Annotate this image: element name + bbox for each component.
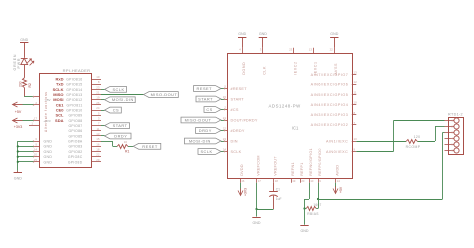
svg-text:29: 29 [96, 158, 100, 162]
wire AIN0 to RTD pin1 [356, 121, 444, 152]
svg-text:19: 19 [96, 96, 100, 100]
svg-text:16: 16 [241, 179, 245, 183]
svg-text:START: START [198, 96, 213, 101]
svg-text:GPIO87: GPIO87 [68, 124, 82, 128]
net label RESET (IC side) [194, 86, 228, 92]
wire AIN1 to RCOMP to RTD pin2 [356, 141, 406, 143]
svg-text:DRDY: DRDY [114, 133, 127, 138]
svg-text:GND: GND [253, 221, 261, 225]
ground GND1 [20, 38, 29, 43]
svg-text:15: 15 [96, 137, 100, 141]
svg-text:1uF: 1uF [276, 197, 282, 201]
svg-text:23: 23 [223, 137, 227, 141]
svg-text:15: 15 [223, 95, 227, 99]
net label SCLK [101, 86, 127, 92]
LED LED1 GREEN PWR [13, 54, 34, 71]
svg-text:22: 22 [330, 48, 334, 52]
svg-text:MISO-DOUT: MISO-DOUT [185, 117, 212, 122]
svg-text:IEXC1: IEXC1 [313, 61, 317, 74]
svg-text:23: 23 [96, 85, 100, 89]
svg-text:22: 22 [96, 153, 100, 157]
svg-text:GND: GND [330, 32, 338, 36]
svg-text:CLK: CLK [263, 66, 267, 75]
svg-text:RBIAS: RBIAS [307, 212, 319, 216]
svg-text:AIN0/IEXC: AIN0/IEXC [326, 150, 348, 154]
svg-text:+3V3: +3V3 [244, 188, 248, 196]
IC U1 right pin names and stubs [311, 71, 357, 154]
ground (RBIAS) [300, 226, 309, 234]
svg-text:13: 13 [309, 48, 313, 52]
supply +3V3 (DVDD) [238, 183, 248, 196]
svg-text:REFN1: REFN1 [291, 162, 295, 176]
net label CS (IC side) [204, 107, 227, 113]
svg-text:16: 16 [96, 142, 100, 146]
wire REFP0 net [317, 133, 445, 209]
svg-text:START: START [231, 97, 245, 101]
svg-text:CS: CS [113, 108, 119, 113]
net label MISO-DOUT (IC side) [181, 117, 227, 123]
net label DRDY (IC side) [196, 128, 228, 134]
net label MOSI-DIN [101, 97, 135, 103]
svg-text:10: 10 [354, 101, 358, 105]
svg-text:11: 11 [354, 91, 357, 95]
svg-text:VREFOUT: VREFOUT [273, 156, 277, 176]
svg-text:GPIO82: GPIO82 [68, 150, 82, 154]
svg-text:14: 14 [34, 148, 38, 152]
svg-text:GPIO89: GPIO89 [68, 114, 82, 118]
ground [238, 32, 247, 48]
svg-text:GND: GND [259, 32, 267, 36]
svg-text:14: 14 [337, 179, 341, 183]
net label SCLK (IC side) [198, 149, 227, 155]
svg-text:22: 22 [223, 127, 227, 131]
svg-text:AIN6/IEXC/GPIO6: AIN6/IEXC/GPIO6 [311, 83, 349, 87]
svg-text:20: 20 [34, 153, 38, 157]
svg-text:AIN4/IEXC/GPIO4: AIN4/IEXC/GPIO4 [311, 103, 349, 107]
svg-text:GND: GND [44, 140, 53, 144]
svg-text:RPI-HEADER: RPI-HEADER [63, 68, 91, 73]
svg-text:17: 17 [34, 116, 38, 120]
svg-text:GPIO815: GPIO815 [66, 83, 82, 87]
svg-text:SCLK: SCLK [112, 87, 124, 92]
svg-text:GPIO812: GPIO812 [66, 98, 82, 102]
svg-text:21: 21 [223, 116, 227, 120]
svg-text:IC1: IC1 [292, 125, 299, 130]
svg-text:#RESET: #RESET [231, 87, 248, 91]
supply +3V3 [13, 118, 34, 129]
svg-text:GND: GND [44, 160, 53, 164]
svg-text:GND: GND [20, 38, 28, 42]
net label START [101, 123, 130, 129]
svg-text:+3V3: +3V3 [43, 119, 50, 123]
wire [418, 127, 445, 142]
svg-text:AVSS: AVSS [334, 63, 338, 75]
wire [24, 43, 26, 58]
svg-text:REFN0/GPIO1: REFN0/GPIO1 [309, 148, 313, 176]
IC U1 top pin names and stubs [239, 48, 338, 75]
connector J1 pin rows text [43, 76, 83, 164]
svg-text:AIN2/IEXC/GPIO2: AIN2/IEXC/GPIO2 [311, 123, 349, 127]
svg-text:SCLK: SCLK [231, 150, 242, 154]
supply +5V [13, 102, 34, 114]
svg-text:#CS: #CS [231, 108, 239, 112]
svg-text:GPIO8A: GPIO8A [68, 140, 83, 144]
ground [259, 32, 268, 48]
svg-text:AIN5/IEXC/GPIO5: AIN5/IEXC/GPIO5 [311, 93, 349, 97]
svg-text:AVDD: AVDD [335, 165, 339, 176]
net label START (IC side) [196, 96, 227, 102]
svg-text:SDA: SDA [55, 118, 64, 123]
connector J1 left pin stubs [29, 101, 40, 163]
svg-text:RESET: RESET [142, 144, 158, 149]
svg-text:23: 23 [289, 48, 293, 52]
svg-text:13: 13 [354, 71, 358, 75]
svg-text:GND: GND [44, 150, 53, 154]
capacitor C1 1uF [269, 183, 281, 209]
svg-text:RCOMP: RCOMP [406, 145, 421, 149]
svg-text:+5V: +5V [339, 186, 343, 193]
svg-text:230: 230 [18, 81, 22, 87]
svg-text:12: 12 [354, 80, 358, 84]
svg-text:DGND: DGND [242, 62, 246, 75]
connector RTD1-2 [445, 112, 464, 154]
IC U1 bottom pin names and stubs [240, 148, 341, 183]
resistor RBIAS 1667 [305, 203, 322, 216]
wire REFN0 to RBIAS [303, 183, 309, 210]
svg-text:RESET: RESET [197, 86, 213, 91]
svg-text:DIN: DIN [231, 139, 238, 143]
svg-text:17: 17 [258, 179, 262, 183]
svg-text:GPIO85: GPIO85 [68, 134, 82, 138]
svg-text:GPIO83: GPIO83 [68, 145, 82, 149]
svg-text:MISO-DOUT: MISO-DOUT [151, 92, 178, 97]
svg-text:AIN1/IEXC: AIN1/IEXC [326, 139, 348, 143]
svg-text:GPIO8C: GPIO8C [68, 155, 83, 159]
svg-text:VREFCOM: VREFCOM [256, 155, 260, 176]
wire VREFCOM to GND [255, 183, 273, 210]
svg-text:DRDY: DRDY [199, 128, 212, 133]
svg-text:120: 120 [414, 135, 421, 139]
ground [330, 32, 339, 48]
svg-text:25: 25 [34, 158, 38, 162]
svg-text:24: 24 [223, 148, 227, 152]
svg-text:GPIO814: GPIO814 [66, 88, 82, 92]
svg-text:REFP1: REFP1 [300, 162, 304, 175]
IC U1 ADS1248-PW box [228, 54, 353, 179]
net label DRDY [101, 133, 131, 139]
svg-text:10: 10 [354, 137, 358, 141]
wire [24, 88, 39, 98]
svg-text:GPIO813: GPIO813 [66, 93, 82, 97]
svg-text:CS: CS [206, 107, 212, 112]
svg-text:DOUT/#DRDY: DOUT/#DRDY [231, 118, 258, 122]
svg-text:10: 10 [96, 75, 100, 79]
svg-text:AIN3/IEXC/GPIO3: AIN3/IEXC/GPIO3 [311, 113, 349, 117]
svg-text:GPIO86: GPIO86 [68, 129, 82, 133]
svg-text:GPIO88: GPIO88 [68, 119, 82, 123]
svg-text:13: 13 [96, 132, 100, 136]
svg-text:16: 16 [124, 140, 128, 144]
resistor RCOMP 120 [406, 135, 421, 149]
svg-text:GPIO816: GPIO816 [66, 77, 82, 81]
resistor R2 230 [18, 78, 32, 88]
svg-text:+3V3: +3V3 [14, 125, 23, 129]
svg-text:R2: R2 [28, 83, 32, 87]
wire RBIAS left to GND [304, 209, 306, 225]
svg-text:GND: GND [301, 229, 309, 233]
svg-text:#DRDY: #DRDY [231, 129, 245, 133]
supply +5V (AVDD) [333, 183, 343, 194]
svg-text:11: 11 [96, 127, 99, 131]
net label CS [101, 107, 121, 113]
ground GND2 [14, 171, 23, 181]
svg-text:GPIO811: GPIO811 [67, 103, 83, 107]
svg-text:DVDD: DVDD [240, 164, 244, 176]
svg-text:19: 19 [292, 179, 296, 183]
svg-text:ADS1248-PW: ADS1248-PW [269, 103, 302, 108]
IC U1 left pin names [223, 85, 258, 154]
svg-text:C1: C1 [276, 187, 280, 191]
svg-text:SCLK: SCLK [200, 149, 212, 154]
wire GND bus [17, 141, 34, 171]
svg-text:GND: GND [238, 32, 246, 36]
svg-text:PWR: PWR [17, 58, 21, 69]
connector J1 right pin stubs [91, 75, 101, 162]
svg-text:GND: GND [44, 145, 53, 149]
svg-text:GPIO810: GPIO810 [66, 108, 82, 112]
svg-text:GPIO8D: GPIO8D [68, 160, 83, 164]
svg-text:+5V: +5V [15, 110, 22, 114]
svg-text:IEXC2: IEXC2 [294, 61, 298, 74]
net label RESET (header side) [133, 143, 161, 149]
resistor R1 [101, 140, 133, 153]
svg-text:18: 18 [275, 179, 279, 183]
svg-text:1667: 1667 [313, 203, 321, 207]
svg-text:START: START [113, 123, 128, 128]
net label MISO-DOUT [101, 92, 178, 98]
wire [24, 65, 26, 78]
svg-text:MOSI-DIN: MOSI-DIN [112, 97, 134, 102]
svg-text:24: 24 [96, 106, 100, 110]
net label MOSI-DIN (IC side) [185, 138, 228, 144]
svg-text:18: 18 [96, 148, 100, 152]
svg-text:10: 10 [310, 179, 314, 183]
ground (VREFCOM) [252, 209, 261, 225]
svg-text:R1: R1 [125, 149, 129, 153]
svg-text:+5V: +5V [45, 98, 50, 102]
svg-text:MOSI-DIN: MOSI-DIN [189, 138, 211, 143]
svg-text:26: 26 [96, 101, 100, 105]
svg-text:GND: GND [44, 155, 53, 159]
svg-text:GND: GND [14, 177, 22, 181]
svg-text:20: 20 [301, 179, 305, 183]
svg-text:21: 21 [96, 91, 100, 95]
svg-text:REFP0/GPIO0: REFP0/GPIO0 [318, 148, 322, 175]
svg-text:RTD1-2: RTD1-2 [448, 112, 463, 116]
connector J1 RPI-HEADER [40, 68, 92, 168]
